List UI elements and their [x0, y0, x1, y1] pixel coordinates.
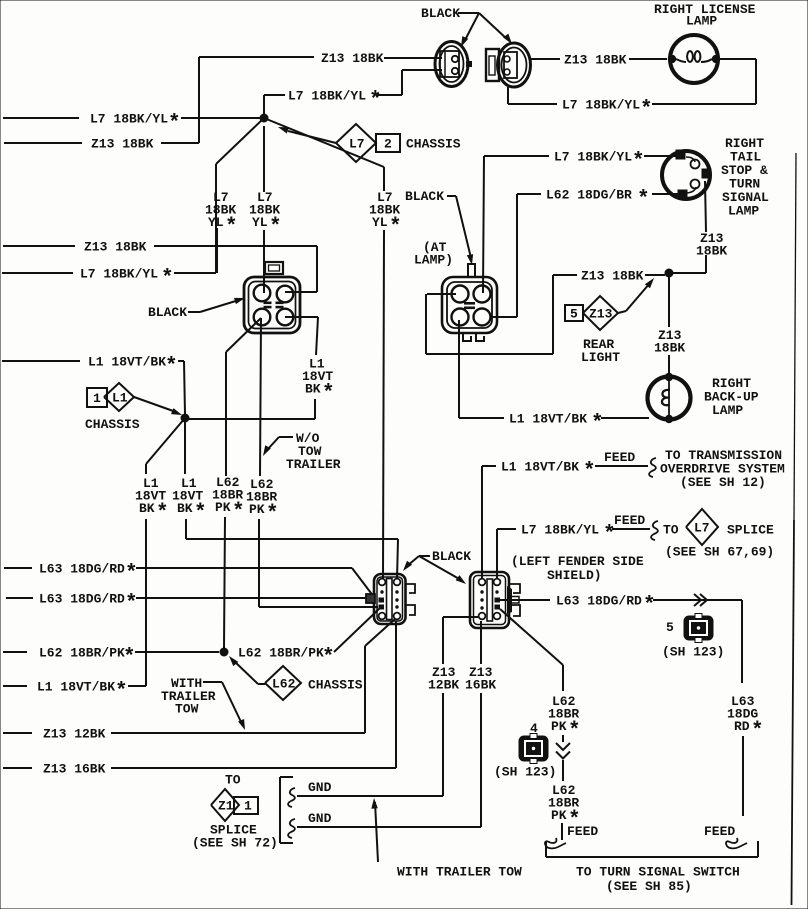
wire Z13 18BK left label row3 to pin	[3, 240, 317, 293]
wire L63 18DG/RD left label row6	[4, 562, 374, 598]
svg-text:GND: GND	[308, 780, 332, 795]
svg-text:FEED: FEED	[704, 824, 735, 839]
svg-text:BLACK: BLACK	[405, 189, 444, 204]
svg-text:CHASSIS: CHASSIS	[308, 678, 363, 693]
wire GND 2	[288, 811, 481, 838]
svg-text:*: *	[156, 502, 169, 525]
arrow to connector C5	[403, 556, 419, 571]
svg-text:*: *	[568, 720, 581, 743]
svg-text:*: *	[161, 268, 174, 291]
svg-text:SHIELD): SHIELD)	[547, 568, 602, 583]
label TO TRANSMISSION OVERDRIVE SYSTEM	[660, 448, 785, 490]
wire Z13 16BK left label row9	[3, 621, 396, 777]
svg-text:CHASSIS: CHASSIS	[85, 417, 140, 432]
svg-text:(SH 123): (SH 123)	[494, 765, 556, 780]
svg-text:L1 18VT/BK: L1 18VT/BK	[509, 412, 587, 427]
splice symbol Z1 1	[192, 773, 278, 851]
svg-text:BLACK: BLACK	[148, 305, 187, 320]
wire L62 18BR/PK right of dot to pin	[238, 608, 380, 670]
svg-text:L63 18DG/RD: L63 18DG/RD	[556, 594, 642, 609]
chassis symbol L7 2	[278, 124, 461, 162]
wire Z13 12BK column to GND1	[428, 617, 478, 796]
svg-text:L7: L7	[694, 521, 710, 536]
wire tail lamp to Z13 label	[669, 181, 727, 273]
wire Z13 ground loop around lamp connector	[426, 275, 577, 354]
wire Z13 18BK to license lamp	[531, 53, 667, 68]
svg-text:1: 1	[244, 799, 252, 814]
svg-text:Z13 16BK: Z13 16BK	[43, 762, 106, 777]
arrow to connector C2	[479, 13, 512, 44]
svg-text:SPLICE: SPLICE	[727, 523, 774, 538]
svg-text:RD: RD	[734, 719, 750, 734]
connector C4 body 4-pin	[244, 262, 300, 333]
connector symbol 5 (SH 123)	[662, 614, 724, 660]
wire Z13 18BK left label row2	[4, 57, 314, 152]
svg-text:TOW: TOW	[175, 702, 199, 717]
label WITH TRAILER TOW (upper)	[161, 676, 245, 730]
svg-text:*: *	[583, 461, 596, 484]
svg-text:L63 18DG/RD: L63 18DG/RD	[39, 592, 125, 607]
wire L7 18BK/YL upper mid label	[264, 70, 442, 118]
svg-text:Z13 12BK: Z13 12BK	[43, 727, 106, 742]
connector C3 at lamp (4-pin)	[442, 264, 497, 341]
svg-text:L7 18BK/YL: L7 18BK/YL	[554, 150, 632, 165]
svg-text:*: *	[389, 216, 402, 239]
wire L62 18DG/BR to tail lamp	[517, 188, 678, 212]
svg-text:Z13: Z13	[589, 307, 613, 322]
junction node Z13 dot	[665, 269, 674, 278]
svg-text:*: *	[123, 647, 136, 670]
label TO TURN SIGNAL SWITCH	[576, 865, 740, 895]
svg-text:(SEE SH 72): (SEE SH 72)	[192, 836, 278, 851]
wire L1 18VT/BK left label row (w/o tow)	[3, 680, 128, 704]
svg-text:16BK: 16BK	[465, 678, 496, 693]
svg-text:L7 18BK/YL: L7 18BK/YL	[521, 523, 599, 538]
svg-text:PK: PK	[551, 808, 567, 823]
svg-text:BLACK: BLACK	[421, 6, 460, 21]
wire L7 18BK/YL below connectors	[508, 87, 653, 122]
svg-text:Z13 18BK: Z13 18BK	[84, 240, 147, 255]
wire Z13 18BK top run to connector C1	[321, 51, 442, 66]
wire GND 1	[288, 780, 443, 807]
wire L62 vertical to lamp connector	[490, 194, 517, 317]
wire diagonal + label column L7 18BK YL* no.3	[264, 118, 402, 579]
label WITH TRAILER TOW (bottom) + arrow	[371, 798, 522, 880]
svg-text:TO: TO	[663, 523, 679, 538]
chassis symbol 1 L1	[85, 383, 182, 432]
svg-text:L7 18BK/YL: L7 18BK/YL	[562, 98, 640, 113]
junction node L1 chassis dot	[181, 414, 190, 423]
svg-text:GND: GND	[308, 811, 332, 826]
svg-text:1: 1	[93, 391, 101, 406]
wire L63 column to feed	[704, 694, 764, 848]
svg-text:*: *	[232, 501, 245, 524]
right license lamp	[668, 35, 720, 83]
label (AT LAMP)	[414, 240, 453, 268]
svg-text:*: *	[369, 90, 382, 113]
svg-text:*: *	[165, 356, 178, 379]
svg-text:Z1: Z1	[218, 799, 234, 814]
junction node L7 dot	[260, 114, 269, 123]
right tail stop turn signal lamp	[662, 150, 711, 199]
wire L63 18DG/RD to sheet 123	[500, 594, 742, 684]
svg-text:LAMP): LAMP)	[414, 253, 453, 268]
svg-text:L1 18VT/BK: L1 18VT/BK	[501, 460, 579, 475]
svg-text:FEED: FEED	[604, 450, 635, 465]
wire L1 18VT/BK left label row5	[2, 355, 185, 415]
svg-text:*: *	[125, 563, 138, 586]
wire Z13 dot to backup lamp	[654, 277, 685, 374]
svg-text:2: 2	[384, 137, 392, 152]
arrow to connector C6	[419, 556, 466, 584]
svg-text:L62 18BR/PK: L62 18BR/PK	[39, 646, 125, 661]
label RIGHT TAIL STOP & TURN SIGNAL LAMP	[721, 136, 769, 219]
label (LEFT FENDER SIDE SHIELD)	[511, 554, 644, 583]
svg-text:L62: L62	[272, 677, 296, 692]
label RIGHT BACK-UP LAMP	[704, 376, 759, 418]
wire L62 18BR/PK left label row	[3, 646, 219, 670]
svg-text:Z13 18BK: Z13 18BK	[91, 137, 154, 152]
svg-text:FEED: FEED	[614, 513, 645, 528]
svg-text:L63 18DG/RD: L63 18DG/RD	[39, 562, 125, 577]
wire L1 from pin BR to chassis dot	[188, 317, 335, 419]
connector C5 left fender (8-way)	[366, 574, 415, 624]
svg-text:Z13 18BK: Z13 18BK	[321, 51, 384, 66]
label BLACK (fender connectors)	[419, 549, 471, 564]
svg-text:*: *	[266, 503, 279, 526]
svg-text:*: *	[322, 383, 335, 406]
svg-text:BLACK: BLACK	[432, 549, 471, 564]
svg-text:*: *	[168, 113, 181, 136]
svg-text:YL: YL	[372, 215, 388, 230]
label W/O TOW TRAILER	[263, 431, 341, 472]
svg-text:LAMP: LAMP	[686, 14, 717, 29]
rear light symbol 5 Z13	[565, 278, 654, 365]
svg-text:LAMP: LAMP	[728, 204, 759, 219]
wire L63 18DG/RD left label row7	[6, 592, 366, 616]
svg-text:WITH TRAILER TOW: WITH TRAILER TOW	[397, 865, 522, 880]
svg-text:*: *	[643, 595, 656, 618]
label BLACK (at lamp)	[405, 189, 473, 265]
wire col3 L62 from pin BL	[212, 318, 261, 648]
svg-text:(SEE SH 12): (SEE SH 12)	[680, 475, 766, 490]
svg-text:PK: PK	[551, 719, 567, 734]
svg-text:BK: BK	[305, 382, 321, 397]
svg-text:18BK: 18BK	[654, 341, 685, 356]
wire L1 18VT/BK at backup lamp	[459, 320, 649, 436]
wire L7 18BK/YL to tail lamp	[484, 150, 676, 174]
ground bracket	[280, 777, 293, 843]
svg-text:BK: BK	[139, 501, 155, 516]
svg-text:18BK: 18BK	[696, 244, 727, 259]
label BLACK (body connector)	[148, 298, 245, 320]
junction node L62 dot	[220, 648, 229, 657]
wire col1 L1 to w/o tow trailer	[128, 418, 185, 686]
svg-text:L7 18BK/YL: L7 18BK/YL	[80, 267, 158, 282]
svg-text:L1 18VT/BK: L1 18VT/BK	[88, 355, 166, 370]
chassis symbol L62	[229, 656, 363, 700]
wire license lamp right loop	[652, 59, 756, 104]
wire L7 18BK/YL feed to splice	[497, 513, 658, 579]
svg-text:L62 18DG/BR: L62 18DG/BR	[546, 188, 632, 203]
svg-text:*: *	[269, 216, 282, 239]
wire Z13 16BK column to GND2	[465, 621, 496, 827]
svg-text:*: *	[637, 189, 650, 212]
arrow to connector C1	[461, 13, 479, 47]
svg-text:*: *	[225, 216, 238, 239]
page edge line	[794, 153, 796, 520]
wire L1 18VT/BK feed to overdrive	[482, 450, 656, 579]
svg-text:*: *	[751, 720, 764, 743]
svg-text:PK: PK	[215, 500, 231, 515]
svg-text:L7: L7	[349, 137, 365, 152]
label column L7 18BK YL* no.1	[205, 190, 238, 273]
svg-text:*: *	[632, 151, 645, 174]
svg-text:TO TURN SIGNAL SWITCH: TO TURN SIGNAL SWITCH	[576, 865, 740, 880]
svg-text:(LEFT FENDER SIDE: (LEFT FENDER SIDE	[511, 554, 644, 569]
wire + label column L7 18BK YL* no.2	[249, 126, 282, 293]
svg-text:*: *	[125, 593, 138, 616]
svg-text:*: *	[591, 413, 604, 436]
wire Z13 12BK left label row8	[3, 619, 395, 742]
svg-text:FEED: FEED	[567, 824, 598, 839]
right back-up lamp	[648, 373, 691, 423]
svg-text:PK: PK	[249, 502, 265, 517]
svg-text:*: *	[115, 681, 128, 704]
bracket to turn signal switch	[546, 841, 758, 857]
svg-text:L7 18BK/YL: L7 18BK/YL	[288, 89, 366, 104]
svg-text:Z13 18BK: Z13 18BK	[581, 269, 644, 284]
svg-text:CHASSIS: CHASSIS	[406, 137, 461, 152]
wire L62 column from C6 to feed	[500, 609, 598, 848]
svg-text:L62 18BR/PK: L62 18BR/PK	[238, 646, 324, 661]
svg-text:*: *	[322, 647, 335, 670]
label RIGHT LICENSE LAMP	[654, 2, 756, 29]
wire col4 L62 from pin BL down	[246, 318, 378, 607]
wire L7 18BK/YL left label row4	[2, 118, 264, 291]
svg-text:*: *	[194, 502, 207, 525]
svg-text:YL: YL	[252, 215, 268, 230]
svg-text:5: 5	[666, 620, 674, 635]
svg-text:LAMP: LAMP	[712, 403, 743, 418]
label BLACK top	[421, 6, 479, 21]
svg-text:L7 18BK/YL: L7 18BK/YL	[90, 112, 168, 127]
wire L7 vertical to lamp connector	[483, 156, 484, 293]
wire L7 18BK/YL left label row1	[3, 112, 262, 136]
svg-text:(SEE SH 85): (SEE SH 85)	[606, 879, 692, 894]
svg-text:(SEE SH 67,69): (SEE SH 67,69)	[665, 545, 774, 560]
svg-text:YL: YL	[208, 215, 224, 230]
svg-text:L1 18VT/BK: L1 18VT/BK	[37, 680, 115, 695]
connector symbol 4 (SH 123)	[494, 721, 556, 780]
splice symbol L7	[663, 509, 774, 560]
connector C2 (2-pin oval with lock)	[486, 43, 531, 87]
svg-text:*: *	[640, 99, 653, 122]
svg-text:Z13 18BK: Z13 18BK	[564, 53, 627, 68]
svg-text:5: 5	[570, 307, 578, 322]
wire col2 L1 to fender connector	[172, 422, 398, 579]
connector C6 right fender (10-way)	[470, 572, 520, 628]
wire Z13 18BK at rear light	[581, 269, 665, 284]
svg-text:LIGHT: LIGHT	[581, 350, 620, 365]
svg-text:(SH 123): (SH 123)	[662, 645, 724, 660]
svg-text:TO: TO	[225, 773, 241, 788]
connector C1 (2-pin oval)	[435, 42, 472, 87]
svg-text:12BK: 12BK	[428, 678, 459, 693]
svg-text:TRAILER: TRAILER	[286, 457, 341, 472]
svg-text:BK: BK	[177, 501, 193, 516]
svg-text:L1: L1	[112, 391, 128, 406]
